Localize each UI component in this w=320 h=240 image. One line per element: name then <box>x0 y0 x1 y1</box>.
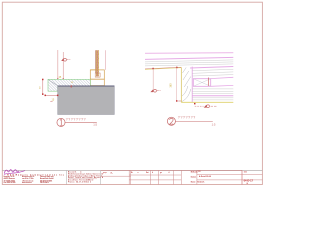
wall insulation strip <box>96 50 98 76</box>
floor hatch band <box>48 79 90 91</box>
wire red vertical line B <box>62 52 64 86</box>
wall brown line <box>95 50 97 73</box>
node dot ledger left <box>152 68 154 70</box>
revision header ticks <box>131 171 170 174</box>
svg-text:gepr.: gepr. <box>103 171 108 174</box>
svg-text:04: 04 <box>246 183 248 185</box>
node dot level <box>194 103 196 105</box>
title block top line <box>2 169 262 171</box>
svg-text:Siebenh.: Siebenh. <box>197 181 205 183</box>
drawing info rows <box>197 171 211 183</box>
svg-text:ge: ge <box>160 172 162 174</box>
chamfer diagonal <box>48 80 57 86</box>
callout 1 underline <box>65 121 97 123</box>
svg-text:Datum: Datum <box>191 175 197 178</box>
svg-text:Fax 03687-81189: Fax 03687-81189 <box>4 182 16 184</box>
roof gray line 2 <box>145 62 233 64</box>
level dashed line <box>195 105 204 107</box>
level marker symbol S1 <box>61 58 70 61</box>
svg-text:1:5: 1:5 <box>86 180 89 182</box>
svg-text:R & D: R & D <box>7 174 14 176</box>
level marker symbol S3 <box>204 105 217 108</box>
wall pink line <box>105 50 107 70</box>
ceiling gray line h <box>192 99 233 101</box>
svg-text:1:5: 1:5 <box>93 123 97 127</box>
ceiling magenta line 2 <box>190 67 233 69</box>
soffit yellow line <box>181 101 233 103</box>
eave ledger yellow line <box>145 68 181 70</box>
ceiling gray line e <box>192 90 233 92</box>
svg-text:Ramsau Communications Inc: Ramsau Communications Inc <box>16 173 65 176</box>
ceiling gray line a <box>192 69 233 70</box>
ceiling gray line c <box>192 75 233 76</box>
address column 3 <box>40 175 54 184</box>
address column 1 <box>4 175 16 184</box>
check cell marks <box>103 171 113 174</box>
dimension vertical left <box>40 79 44 95</box>
address column 2 <box>22 175 35 184</box>
blocking X box <box>193 77 233 86</box>
svg-text:1:5: 1:5 <box>212 122 216 126</box>
title block row lines <box>101 175 131 177</box>
ceiling gray line f <box>192 93 233 95</box>
svg-text:x,: x, <box>111 171 113 174</box>
svg-text:04-D-17: 04-D-17 <box>244 179 254 183</box>
slab top edge <box>58 85 115 87</box>
title block verticals <box>65 170 67 184</box>
level marker symbol S2 <box>150 89 160 92</box>
sheet number cells <box>244 171 254 185</box>
roof pink top band <box>145 52 233 55</box>
svg-text:a: a <box>138 172 139 174</box>
node dot A <box>57 79 59 81</box>
sheet frame border <box>2 2 262 184</box>
wire red vertical line A <box>57 50 59 79</box>
svg-text:360: 360 <box>170 83 173 88</box>
dimension horizontal lower <box>45 95 59 102</box>
roof gray line 1 <box>145 60 233 62</box>
ceiling gray line b <box>192 72 233 73</box>
svg-text:A-Detail 29.04: A-Detail 29.04 <box>199 175 211 178</box>
callout 2 bubble <box>167 117 175 125</box>
sill yellow ledge line <box>90 69 96 71</box>
sill box upper <box>90 70 104 79</box>
project text block <box>68 171 104 184</box>
ceiling magenta line 3 <box>192 95 233 97</box>
sill inner brown box <box>95 73 100 77</box>
roof gray line 3 <box>145 64 233 66</box>
node dot B <box>63 79 65 81</box>
concrete slab <box>58 86 115 115</box>
node dot ledger right <box>176 67 178 69</box>
timber wall strip <box>181 67 192 103</box>
slab corner annotation <box>71 82 74 87</box>
company logo scribble <box>4 170 25 175</box>
callout 1 bubble <box>57 118 65 126</box>
dimension vertical fascia <box>170 67 182 101</box>
ceiling gray line g <box>192 97 233 99</box>
callout 2 underline <box>176 121 213 123</box>
svg-text:????????: ???????? <box>66 117 87 121</box>
roof magenta line <box>145 57 233 59</box>
ceiling gray line d <box>192 88 233 90</box>
svg-text:???????: ??????? <box>178 115 196 119</box>
svg-text:Name: Name <box>191 181 196 183</box>
scale date labels <box>191 171 198 184</box>
eave ledger red line <box>145 67 181 69</box>
sill box lower <box>90 79 104 85</box>
hanger red vertical <box>152 69 154 90</box>
